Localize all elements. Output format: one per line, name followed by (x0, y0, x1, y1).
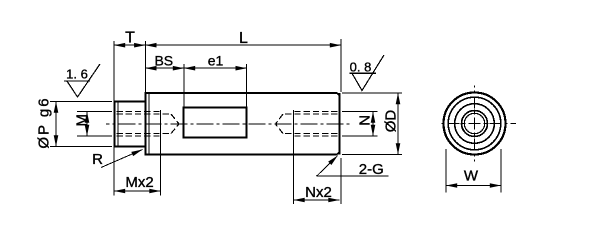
dimension M (77, 112, 112, 137)
stub chamfer line (117, 102, 119, 147)
svg-text:1. 6: 1. 6 (66, 67, 88, 82)
svg-text:2-G: 2-G (359, 161, 384, 178)
dimension L (145, 39, 341, 92)
centerline main axis (106, 123, 350, 125)
body left chamfer line (148, 93, 150, 154)
svg-text:L: L (239, 30, 248, 47)
dimension BS (145, 64, 184, 107)
end view stub circle (455, 104, 495, 144)
svg-text:Mx2: Mx2 (125, 174, 153, 191)
svg-text:T: T (125, 30, 135, 47)
roughness symbol 0.8 (350, 55, 385, 91)
svg-text:Nx2: Nx2 (305, 184, 332, 201)
dimension e1 (184, 64, 247, 107)
end view circle D outer (444, 93, 506, 155)
svg-text:M: M (74, 114, 91, 127)
keyway slot (184, 107, 247, 137)
end view hole minor circle (464, 113, 484, 133)
roughness symbol 1.6 (64, 64, 100, 97)
left tapped hole Mx2 hidden lines (117, 112, 180, 137)
end view hole chamfer circle (462, 111, 488, 137)
svg-text:BS: BS (154, 53, 173, 69)
svg-text:R: R (92, 151, 103, 168)
dimension D diameter (342, 93, 402, 154)
leader 2-G (317, 156, 389, 177)
dimension W (446, 149, 501, 193)
end view chamfer circle (448, 97, 501, 150)
dimension P diameter (50, 102, 112, 147)
svg-text:e1: e1 (208, 53, 224, 69)
dimension Mx2 (114, 110, 161, 196)
stub cylinder P outline (114, 102, 146, 147)
svg-text:W: W (464, 168, 479, 185)
dimension T (114, 41, 145, 101)
end view centerlines (439, 123, 517, 125)
svg-text:N: N (356, 115, 373, 126)
body cylinder D outline (144, 93, 339, 154)
svg-text:0. 8: 0. 8 (350, 60, 372, 75)
leader R fillet (101, 150, 143, 168)
dimension N (342, 112, 378, 137)
dimension Nx2 (294, 110, 342, 204)
svg-text:ØD: ØD (383, 110, 400, 133)
right tapped hole Nx2 hidden lines (276, 112, 338, 137)
svg-text:ØP g6: ØP g6 (36, 96, 53, 148)
